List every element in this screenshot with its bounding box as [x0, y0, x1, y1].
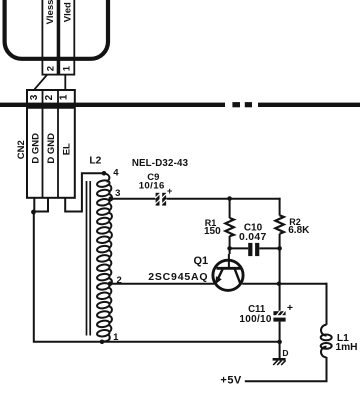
svg-text:0.047: 0.047	[239, 232, 267, 243]
svg-text:2: 2	[45, 66, 56, 71]
svg-text:+5V: +5V	[220, 375, 242, 387]
svg-text:2SC945AQ: 2SC945AQ	[148, 271, 208, 283]
svg-text:+: +	[167, 186, 172, 196]
svg-text:10/16: 10/16	[139, 181, 165, 192]
svg-text:CN2: CN2	[16, 140, 27, 159]
svg-text:3: 3	[29, 94, 40, 100]
svg-text:1: 1	[113, 332, 119, 343]
svg-text:3: 3	[115, 188, 120, 199]
svg-text:2: 2	[117, 275, 122, 286]
svg-text:1mH: 1mH	[335, 342, 357, 353]
svg-text:150: 150	[204, 226, 221, 237]
svg-text:D GND: D GND	[31, 133, 42, 164]
svg-text:Vless: Vless	[45, 0, 56, 24]
svg-text:+: +	[287, 302, 293, 314]
svg-text:Q1: Q1	[193, 255, 208, 267]
svg-text:6.8K: 6.8K	[288, 225, 310, 236]
svg-text:NEL-D32-43: NEL-D32-43	[132, 158, 189, 169]
svg-text:D: D	[282, 348, 288, 358]
svg-text:D GND: D GND	[46, 133, 57, 164]
svg-text:2: 2	[44, 94, 55, 100]
svg-text:L2: L2	[89, 155, 101, 166]
svg-text:100/10: 100/10	[239, 314, 272, 325]
svg-text:Vled: Vled	[62, 2, 73, 22]
svg-text:4: 4	[113, 167, 119, 178]
svg-text:EL: EL	[61, 143, 72, 155]
svg-text:1: 1	[62, 65, 73, 71]
svg-text:1: 1	[58, 94, 69, 100]
